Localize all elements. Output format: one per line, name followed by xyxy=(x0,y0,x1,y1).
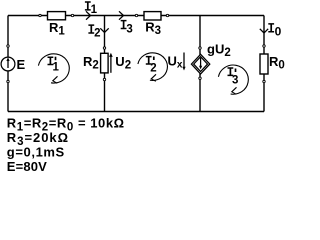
pin dot R1 left xyxy=(39,14,41,16)
resistor R3 body xyxy=(144,12,161,20)
svg-text:E: E xyxy=(17,57,26,72)
pin dot gU2 bottom xyxy=(199,77,201,79)
pin dot R2 bottom xyxy=(103,78,105,80)
svg-text:3: 3 xyxy=(126,23,132,35)
wire bottom (ground return node) xyxy=(8,111,264,113)
pin dot R0 top xyxy=(263,45,265,47)
controlled current source gU2 (double diamond with down arrow) xyxy=(191,54,209,74)
pin dot gU2 top xyxy=(199,47,201,49)
label I3' xyxy=(228,67,239,86)
svg-text:3: 3 xyxy=(232,74,238,86)
wire gU2 branch xyxy=(199,16,201,112)
svg-text:2: 2 xyxy=(94,28,100,40)
current arrow I3 xyxy=(119,11,124,19)
label I2 xyxy=(88,24,100,39)
wire right (R0 branch) xyxy=(263,16,265,112)
wire left (E branch) xyxy=(7,16,9,112)
label I2' xyxy=(146,56,157,74)
svg-text:0: 0 xyxy=(275,25,282,39)
wire middle (R2 branch) xyxy=(104,16,106,112)
label I1' xyxy=(48,57,60,74)
voltage source E (circle with up arrow) xyxy=(1,57,15,71)
svg-text:g=0,1mS: g=0,1mS xyxy=(7,144,65,159)
voltage arrow U2 (up, across R2) xyxy=(109,53,113,73)
svg-text:2: 2 xyxy=(150,62,156,74)
wire top (node between E, R1, R3, gU2, R0) xyxy=(8,15,264,17)
current arrow I2 xyxy=(100,28,108,32)
svg-text:E=80V: E=80V xyxy=(7,159,47,173)
voltage arrow Ux (down) xyxy=(182,53,185,71)
label I3 xyxy=(121,20,133,35)
pin dot R3 right xyxy=(166,14,168,16)
pin dot R0 bottom xyxy=(263,80,265,82)
pin dot E bottom xyxy=(7,80,9,82)
pin dot R2 top xyxy=(103,47,105,49)
mesh current arrow I2' (clockwise arc) xyxy=(138,53,168,81)
current arrow I0 xyxy=(260,29,268,33)
resistor R2 body xyxy=(101,53,109,73)
mesh current arrow I3' (clockwise arc) xyxy=(218,65,248,94)
svg-text:1: 1 xyxy=(91,4,98,16)
resistor R0 body xyxy=(260,54,268,74)
pin dot E top xyxy=(7,45,9,47)
mesh current arrow I1' (clockwise arc) xyxy=(38,54,69,83)
pin dot R3 left xyxy=(135,14,137,16)
pin dot R1 right xyxy=(71,14,73,16)
label I0 xyxy=(268,23,281,39)
resistor R1 body xyxy=(48,12,66,20)
current arrow I1 xyxy=(86,11,91,19)
svg-text:1: 1 xyxy=(53,62,60,74)
label I1 xyxy=(85,1,98,16)
